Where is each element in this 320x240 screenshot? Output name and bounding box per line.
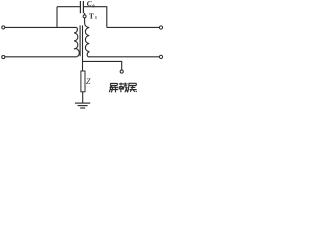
wire from Z box to ground <box>82 92 84 103</box>
svg-text:1: 1 <box>95 15 98 20</box>
svg-text:T: T <box>89 12 94 21</box>
label 屏蔽层 char 蔽 <box>119 83 128 93</box>
impedance Z box <box>81 71 85 92</box>
transformer T1 secondary winding <box>85 18 90 57</box>
wire top from tee through capacitor <box>57 6 80 8</box>
transformer T1 primary winding <box>74 27 79 56</box>
node T1 terminal stem <box>84 13 86 15</box>
right-bottom terminal node <box>159 55 162 58</box>
wire from left-top terminal to primary winding <box>5 26 77 28</box>
left-top terminal node <box>2 26 5 29</box>
left-bottom terminal node <box>2 56 5 59</box>
right-top terminal node <box>159 26 162 29</box>
wire from shield line to shield terminal <box>83 61 122 70</box>
wire from primary winding bottom to left-bottom terminal <box>5 56 77 58</box>
wire vertical tee up to capacitor line <box>56 7 58 28</box>
label 屏蔽层 (shielding layer) : drawn strokes, char 屏 <box>109 83 118 92</box>
svg-text:Z: Z <box>86 77 91 86</box>
wire from capacitor right plate to top-right corner down to output line <box>84 7 107 28</box>
shield terminal node <box>120 70 123 73</box>
label 屏蔽层 char 层 <box>128 83 137 92</box>
ground <box>75 103 90 108</box>
svg-text:0: 0 <box>92 3 95 8</box>
wire from secondary winding bottom to right-bottom terminal <box>88 56 159 58</box>
svg-text:C: C <box>87 0 92 8</box>
transformer core line <box>79 25 81 56</box>
node T1 terminal circle <box>83 15 86 18</box>
capacitor C0 plate right <box>82 1 84 13</box>
capacitor C0 plate left <box>79 1 81 13</box>
transformer shield line (screen between windings) <box>82 25 84 71</box>
wire to right-top terminal <box>107 26 160 28</box>
